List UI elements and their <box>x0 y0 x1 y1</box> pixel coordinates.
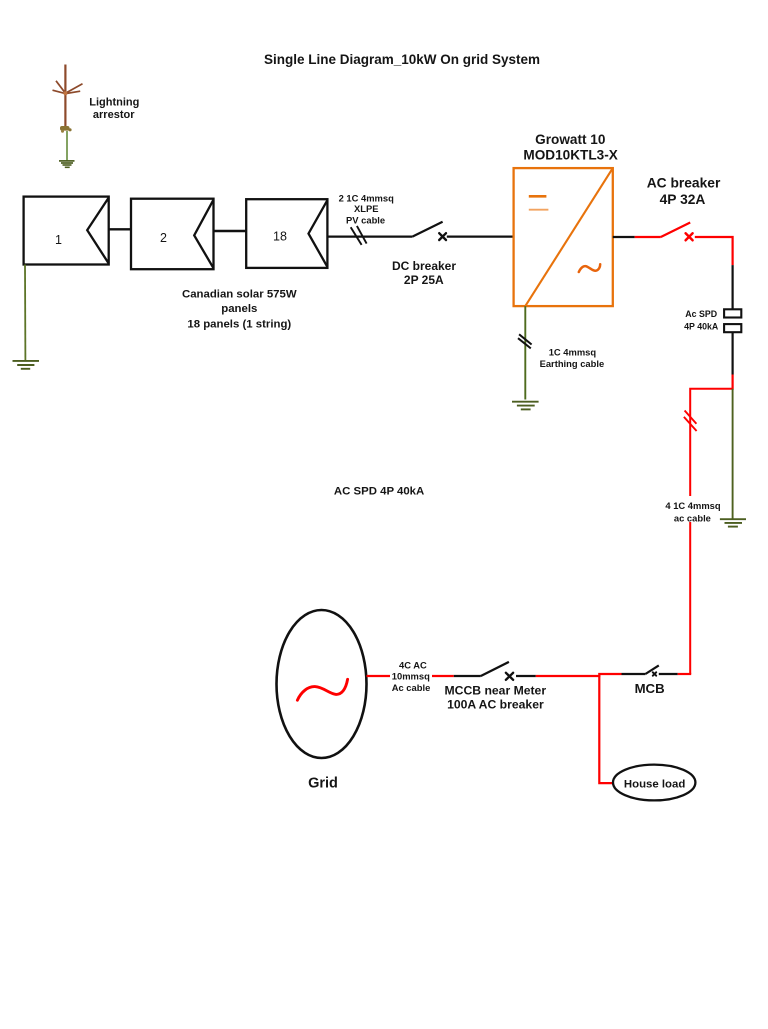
label ac cable <box>664 496 721 523</box>
inverter diagonal <box>525 168 613 306</box>
wire grid to MCCB red <box>367 675 454 677</box>
wire MCCB to MCB red <box>536 674 622 676</box>
SPD ground <box>720 519 746 526</box>
svg-text:MCCB near Meter: MCCB near Meter <box>445 684 547 698</box>
house load ellipse <box>613 765 695 801</box>
wire AC breaker to corner <box>695 237 733 265</box>
wire panel18 to DC breaker <box>327 236 412 238</box>
svg-text:18: 18 <box>273 230 287 244</box>
MCCB breaker CB3 <box>481 662 513 680</box>
svg-text:House load: House load <box>624 778 685 790</box>
svg-text:100A AC breaker: 100A AC breaker <box>447 697 544 711</box>
wire SPD down red <box>731 375 733 390</box>
svg-text:2 1C 4mmsq: 2 1C 4mmsq <box>339 192 395 203</box>
label grid ac cable <box>390 658 432 694</box>
svg-text:Grid: Grid <box>308 775 338 791</box>
svg-text:1: 1 <box>55 233 62 247</box>
svg-text:XLPE: XLPE <box>354 203 379 214</box>
inverter earth wire <box>524 306 526 399</box>
label MCCB <box>445 684 547 712</box>
node junction house load <box>598 674 600 676</box>
svg-text:Earthing cable: Earthing cable <box>540 358 605 369</box>
solar panel 2 <box>131 199 214 270</box>
label PV cable <box>339 192 395 225</box>
solar panel 1 <box>24 197 109 265</box>
panel earth wire <box>24 265 26 361</box>
svg-text:18 panels (1 string): 18 panels (1 string) <box>187 318 291 330</box>
label grid <box>308 775 338 791</box>
lightning arrestor earth wire <box>66 131 68 161</box>
svg-text:10mmsq: 10mmsq <box>392 671 430 682</box>
wire red into AC breaker <box>635 236 661 238</box>
PV cable marks <box>351 226 367 245</box>
lightning arrestor LA1 <box>53 65 83 129</box>
wire panel2-panel18 <box>214 230 247 232</box>
SPD earth wire <box>732 389 734 519</box>
svg-text:AC breaker: AC breaker <box>647 175 721 190</box>
label AC breaker <box>647 175 721 207</box>
wire black into MCCB <box>454 675 481 677</box>
wire inverter to AC breaker <box>613 236 635 238</box>
svg-text:MCB: MCB <box>635 681 665 696</box>
wire SPD down black <box>731 332 733 374</box>
label earthing cable <box>540 347 605 369</box>
wire panel1-panel2 <box>109 228 131 230</box>
wire black down to SPD <box>731 265 733 309</box>
earthing cable marks <box>518 334 532 348</box>
svg-text:Canadian solar 575W: Canadian solar 575W <box>182 288 297 300</box>
lightning arrestor clamp <box>60 126 72 133</box>
label lightning arrestor <box>89 97 139 122</box>
inverter DC symbol <box>529 196 549 209</box>
svg-text:AC SPD 4P 40kA: AC SPD 4P 40kA <box>334 485 424 497</box>
svg-text:MOD10KTL3-X: MOD10KTL3-X <box>523 147 617 162</box>
label house load <box>624 778 685 790</box>
svg-text:4C AC: 4C AC <box>399 660 427 671</box>
svg-text:panels: panels <box>221 303 257 315</box>
panel ground <box>13 361 40 369</box>
label DC breaker <box>392 259 456 287</box>
MCB breaker CB4 <box>645 665 658 675</box>
svg-text:1C 4mmsq: 1C 4mmsq <box>549 347 597 358</box>
svg-text:2P 25A: 2P 25A <box>404 273 444 287</box>
svg-text:4 1C 4mmsq: 4 1C 4mmsq <box>665 500 721 511</box>
svg-text:Lightning: Lightning <box>89 97 139 109</box>
SPD block 1 <box>724 309 741 317</box>
wire junction to house load <box>599 675 613 783</box>
svg-text:Growatt 10: Growatt 10 <box>535 132 605 147</box>
svg-text:PV cable: PV cable <box>346 215 385 226</box>
inverter AC symbol <box>579 264 600 272</box>
svg-text:DC breaker: DC breaker <box>392 259 456 273</box>
wire MCCB out black <box>516 675 536 677</box>
label inverter <box>523 132 617 163</box>
svg-text:arrestor: arrestor <box>93 109 135 121</box>
wire MCB to riser red <box>678 673 692 675</box>
svg-text:2: 2 <box>160 231 167 245</box>
label AC SPD 4P 40kA <box>334 485 424 497</box>
ac cable marks <box>684 411 697 432</box>
title <box>264 52 540 67</box>
solar panel 18 <box>246 199 327 268</box>
lightning arrestor ground <box>59 161 75 167</box>
svg-text:Ac cable: Ac cable <box>392 682 431 693</box>
SPD block 2 <box>724 324 741 332</box>
label Ac SPD <box>684 309 719 332</box>
svg-text:4P 40kA: 4P 40kA <box>684 322 719 332</box>
svg-text:Ac SPD: Ac SPD <box>685 309 717 319</box>
wire DC breaker to inverter <box>447 236 514 238</box>
inverter U1 box <box>514 168 613 306</box>
AC breaker CB2 <box>661 223 693 241</box>
svg-text:ac cable: ac cable <box>674 512 711 523</box>
svg-text:4P 32A: 4P 32A <box>660 192 706 207</box>
inverter ground <box>512 402 539 410</box>
label MCB <box>635 681 665 696</box>
wire MCB out black <box>659 673 678 675</box>
svg-text:Single Line Diagram_10kW On gr: Single Line Diagram_10kW On grid System <box>264 52 540 67</box>
wire black into MCB <box>622 673 646 675</box>
wire red branch left <box>690 389 732 674</box>
grid source G1 <box>277 610 367 758</box>
DC breaker CB1 <box>412 222 446 240</box>
label canadian solar panels <box>182 288 297 330</box>
